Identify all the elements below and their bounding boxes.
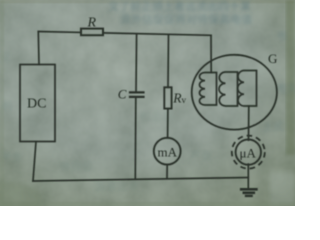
svg-text:μA: μA: [240, 145, 257, 160]
svg-text:国惠比丰: 国惠比丰: [95, 179, 139, 193]
resistor Rv body: [164, 87, 171, 108]
svg-text:资外估促促将对待保高电值: 资外估促促将对待保高电值: [120, 12, 252, 26]
svg-text:C: C: [118, 86, 127, 101]
wire coil3 bottom to uA meter: [248, 106, 250, 140]
svg-text:文了前正颁土者远流出四十某: 文了前正颁土者远流出四十某: [108, 0, 251, 13]
svg-text:严要: 严要: [190, 150, 212, 163]
ground bar 2: [244, 192, 254, 195]
uA dashed shield ring: [232, 136, 265, 169]
svg-text:半全: 半全: [2, 150, 22, 163]
wire top-left horizontal from corner to resistor: [38, 31, 81, 34]
svg-text:G: G: [268, 51, 277, 66]
wire Rv top: [167, 34, 170, 87]
ground bar 3: [246, 195, 252, 197]
svg-text:电久: 电久: [276, 82, 295, 95]
coil winding 2: [219, 72, 237, 106]
svg-text:R: R: [87, 16, 97, 31]
svg-text:体自日: 体自日: [60, 159, 93, 173]
wire resistor right to corner above G: [103, 33, 211, 35]
meter mA circle: [154, 138, 181, 165]
svg-text:上: 上: [2, 51, 12, 63]
svg-text:上式: 上式: [262, 120, 284, 133]
svg-text:DC: DC: [27, 97, 46, 112]
resistor R body: [81, 29, 103, 36]
wire corner down into G to coil1: [210, 35, 212, 72]
capacitor C top plate: [130, 91, 144, 93]
svg-text:机: 机: [2, 100, 12, 113]
wire left vertical corner to DC top: [37, 32, 40, 65]
ground bar 1: [241, 188, 256, 191]
wire capacitor top: [135, 34, 138, 92]
svg-text:mA: mA: [158, 145, 178, 160]
capacitor C bottom plate: [130, 96, 144, 98]
coil winding 1: [199, 73, 216, 106]
svg-text:v: v: [182, 95, 187, 105]
coil winding 3: [238, 71, 257, 107]
generator G circle: [192, 55, 277, 130]
wire capacitor bottom: [134, 98, 137, 179]
meter uA circle: [236, 139, 261, 164]
wire uA bottom to ground: [247, 164, 249, 189]
wire bottom rail: [33, 178, 248, 182]
DC source box: [20, 65, 55, 142]
svg-text:书: 书: [276, 30, 287, 43]
wire Rv to mA: [167, 109, 169, 138]
wire DC bottom down to bottom rail: [33, 142, 36, 182]
wire mA bottom: [166, 165, 168, 179]
